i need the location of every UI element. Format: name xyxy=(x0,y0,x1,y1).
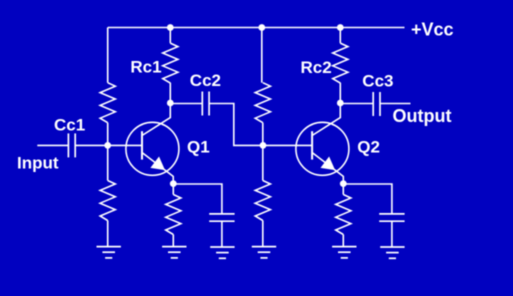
svg-text:Q1: Q1 xyxy=(187,138,210,157)
svg-text:+Vcc: +Vcc xyxy=(411,19,454,39)
svg-text:Cc1: Cc1 xyxy=(54,115,85,134)
svg-text:Cc2: Cc2 xyxy=(190,71,221,90)
svg-text:Output: Output xyxy=(393,106,452,126)
svg-text:Rc1: Rc1 xyxy=(130,58,161,77)
svg-text:Cc3: Cc3 xyxy=(362,71,393,90)
svg-text:Rc2: Rc2 xyxy=(301,58,332,77)
svg-text:Q2: Q2 xyxy=(357,138,380,157)
svg-text:Input: Input xyxy=(17,154,59,173)
